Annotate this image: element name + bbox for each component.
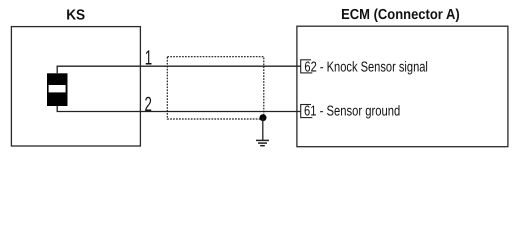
svg-text:1: 1 (145, 47, 152, 70)
junction dot (260, 114, 267, 121)
KS box (11, 27, 140, 146)
shield (dashed box) (167, 57, 263, 119)
pin 61 terminal bracket (301, 104, 313, 118)
knock sensor element body (47, 73, 68, 106)
ground (256, 140, 269, 145)
svg-text:62 - Knock Sensor signal: 62 - Knock Sensor signal (304, 59, 428, 75)
wire 1 (57, 66, 301, 73)
svg-text:KS: KS (66, 7, 85, 23)
wire 2 (57, 106, 301, 112)
pin 62 terminal bracket (301, 59, 313, 73)
svg-text:ECM (Connector A): ECM (Connector A) (341, 7, 460, 23)
ECM box (297, 26, 508, 147)
svg-text:2: 2 (145, 93, 152, 116)
ground lead wire (262, 118, 264, 140)
svg-text:61 - Sensor ground: 61 - Sensor ground (304, 104, 400, 120)
